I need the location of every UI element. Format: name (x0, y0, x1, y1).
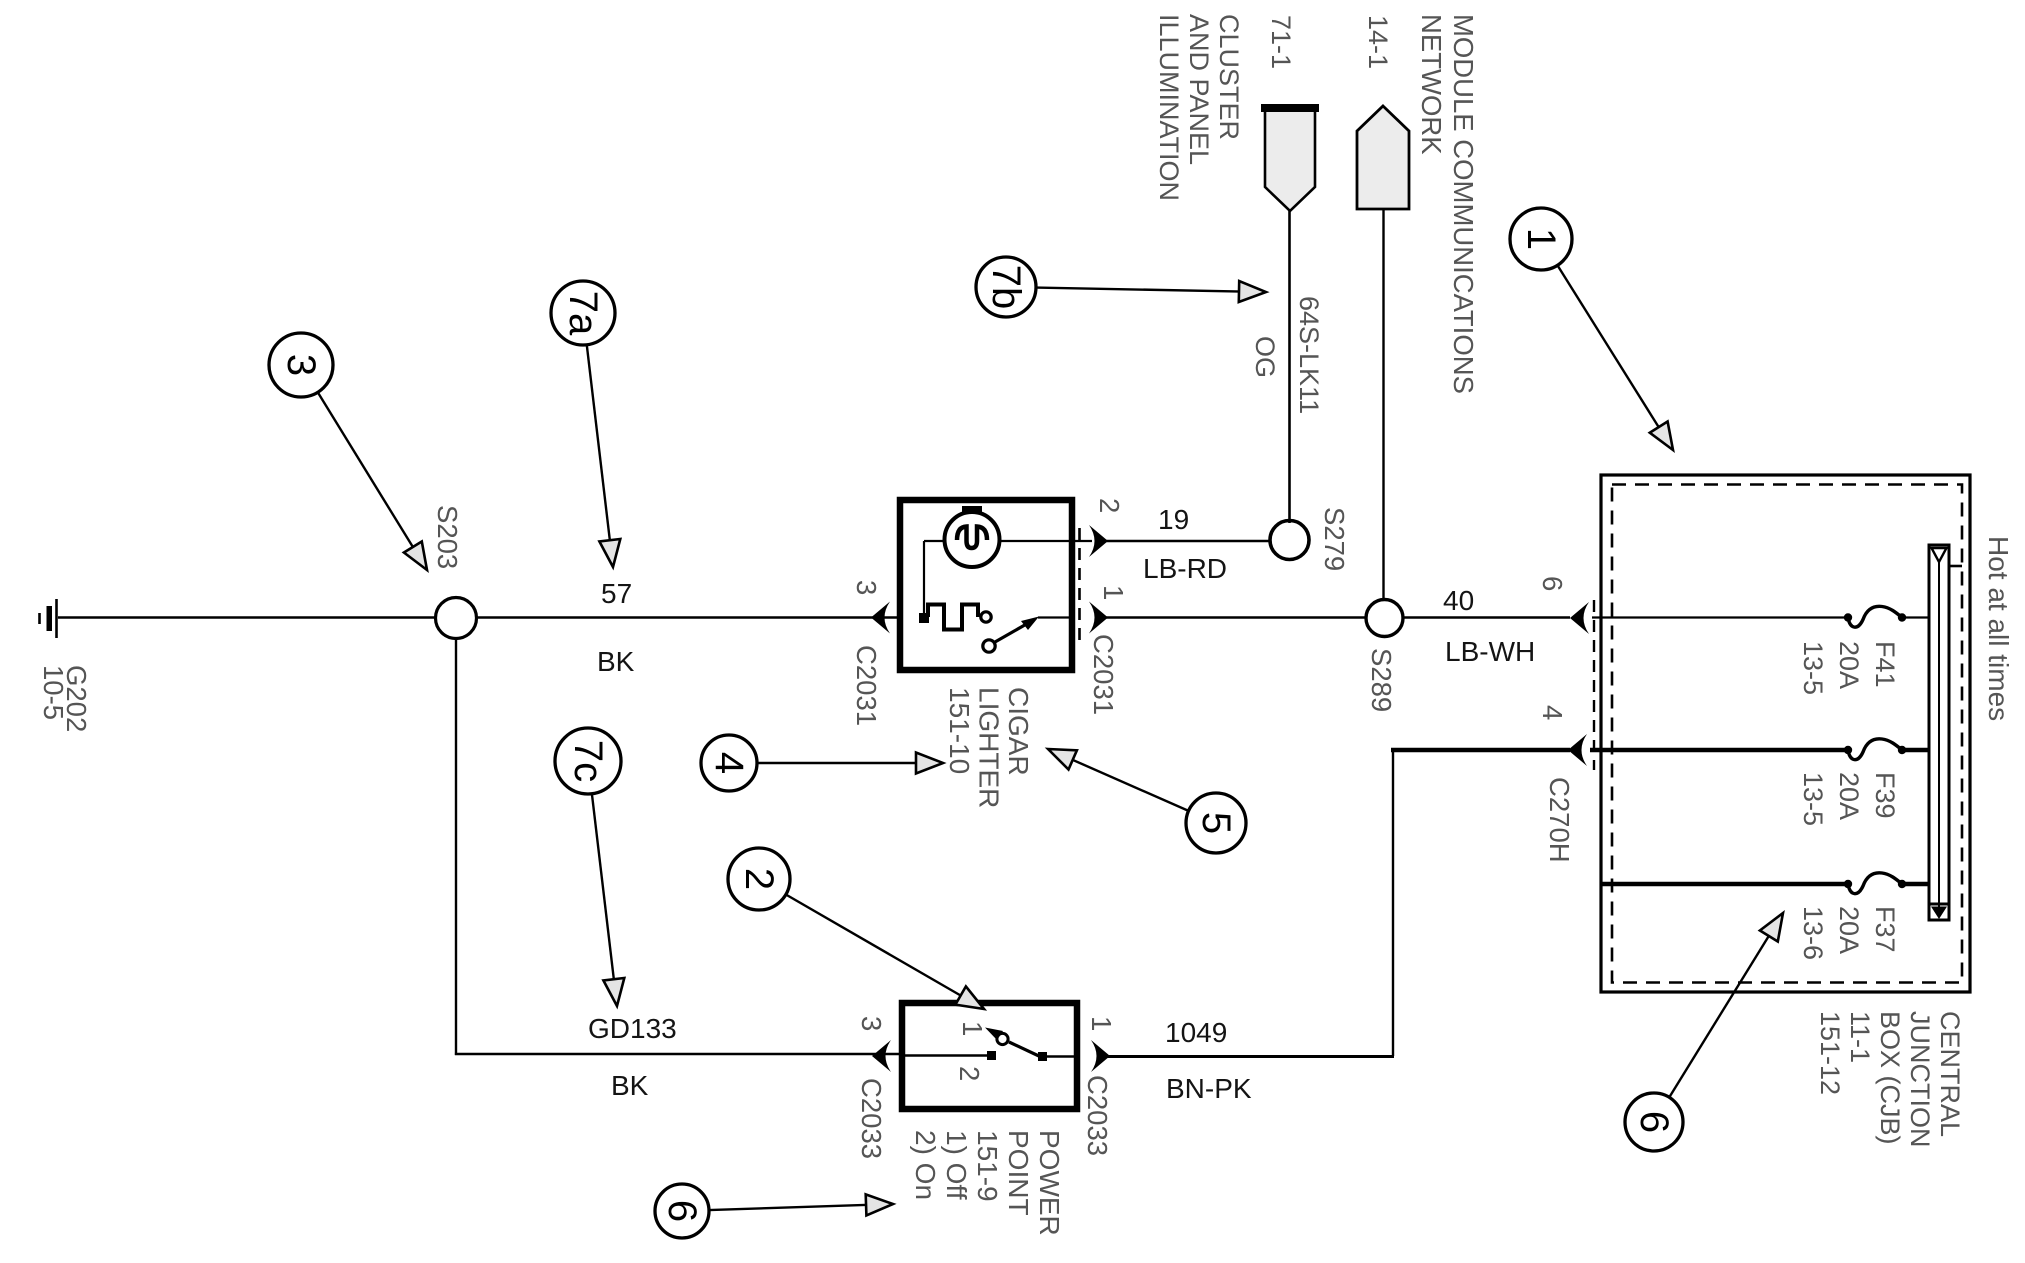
power point box (902, 1003, 1077, 1109)
connector C2033 pin 3 (left) (872, 1040, 891, 1072)
callout 5 (1070, 759, 1189, 811)
wire S289 to cigar pin 1 (1106, 616, 1366, 618)
wire CJB pin 4 to 1049 riser (1391, 748, 1570, 753)
wire GD133 BK : S203 branch to power point pin 3 (455, 1053, 902, 1055)
svg-text:3: 3 (279, 354, 323, 376)
svg-text:OG: OG (1250, 336, 1280, 378)
svg-text:F3720A13-6: F3720A13-6 (1798, 906, 1900, 960)
connector C2031 pin 3 (871, 602, 890, 634)
central junction box (CJB) outline (1601, 475, 1970, 992)
svg-text:GD133: GD133 (588, 1013, 677, 1044)
svg-text:57: 57 (601, 578, 632, 609)
svg-text:4: 4 (1537, 705, 1568, 720)
fuse F37 20A 13-6 (1602, 882, 1848, 887)
ground G202 (55, 599, 58, 638)
fuse F39 20A 13-5 (1590, 748, 1848, 753)
svg-text:Hot at all times: Hot at all times (1983, 536, 2014, 721)
svg-text:40: 40 (1443, 585, 1474, 616)
svg-text:7a: 7a (561, 291, 605, 336)
svg-text:1: 1 (957, 1021, 988, 1036)
svg-text:C2033: C2033 (856, 1078, 887, 1159)
svg-text:14-1: 14-1 (1363, 15, 1393, 69)
svg-text:4: 4 (707, 752, 751, 774)
splice S203 (436, 598, 477, 639)
callout 7b (1036, 288, 1242, 292)
svg-text:F3920A13-5: F3920A13-5 (1798, 772, 1900, 826)
callout 2 (786, 895, 963, 997)
svg-text:6: 6 (660, 1200, 704, 1222)
svg-text:BK: BK (611, 1070, 649, 1101)
svg-text:S203: S203 (432, 505, 463, 569)
wire S203 branch down (455, 638, 457, 1055)
svg-text:C2033: C2033 (1082, 1075, 1113, 1156)
splice S289 (1366, 600, 1403, 637)
lamp branch wire + junction (923, 541, 925, 618)
bus bar (hot at all times) (1929, 545, 1949, 920)
svg-text:3: 3 (851, 580, 882, 595)
switch (power point) (905, 1054, 990, 1056)
callout 7c (592, 794, 614, 982)
svg-text:2: 2 (954, 1066, 985, 1081)
svg-text:F4120A13-5: F4120A13-5 (1798, 641, 1900, 695)
svg-text:6: 6 (1632, 1111, 1676, 1133)
wire 14-1 to S289 (1382, 209, 1384, 601)
callout 6 (power point) (709, 1205, 869, 1210)
wire 64S-LK11 OG (1288, 211, 1291, 523)
svg-text:19: 19 (1158, 504, 1189, 535)
svg-text:71-1: 71-1 (1266, 15, 1296, 69)
svg-text:3: 3 (856, 1016, 887, 1031)
wire 1049 BN-PK (1104, 1055, 1394, 1058)
svg-text:1: 1 (1086, 1016, 1117, 1031)
svg-text:5: 5 (1194, 812, 1238, 834)
svg-text:7c: 7c (566, 740, 610, 782)
svg-text:C2031: C2031 (1088, 634, 1119, 715)
svg-text:1: 1 (1519, 228, 1563, 250)
svg-text:2: 2 (737, 868, 781, 890)
resistor (heating coil) (928, 605, 978, 630)
svg-text:7b: 7b (984, 265, 1028, 310)
svg-text:6: 6 (1537, 576, 1568, 591)
svg-text:BK: BK (597, 646, 635, 677)
svg-text:S289: S289 (1366, 648, 1397, 712)
wire 40 LB-WH (1403, 616, 1570, 618)
svg-text:S279: S279 (1319, 507, 1350, 571)
wire 57 BK : S203 to cigar lighter pin 3 (477, 616, 899, 618)
connector C2031 pins 2 and 1 (right) (1078, 528, 1081, 640)
svg-text:64S-LK11: 64S-LK11 (1294, 296, 1324, 414)
connector C270H pin 4 (1568, 734, 1587, 766)
svg-text:C2031: C2031 (851, 645, 882, 726)
splice S279 (1270, 521, 1309, 560)
callout 6 (CJB) (1669, 933, 1770, 1097)
wire ground to splice S203 (58, 616, 436, 618)
svg-text:C270H: C270H (1544, 777, 1575, 863)
wire 19 LB-RD (1106, 540, 1272, 542)
svg-text:LB-RD: LB-RD (1143, 553, 1227, 584)
callout 7a (587, 345, 610, 543)
svg-text:BN-PK: BN-PK (1166, 1073, 1252, 1104)
switch (cigar lighter) (981, 612, 991, 622)
off-page connector 71-1 (cluster and panel illumination) (1265, 109, 1315, 211)
connector C270H pin 6 (1593, 600, 1595, 770)
svg-text:1049: 1049 (1165, 1017, 1227, 1048)
lamp / heating element circle (924, 540, 1092, 542)
svg-text:LB-WH: LB-WH (1445, 636, 1535, 667)
fuse F41 20A 13-5 (1592, 616, 1848, 618)
off-page connector 14-1 (module communications network) (1357, 106, 1409, 209)
connector C2033 pin 1 (right) (1091, 1040, 1110, 1072)
callout 1 (1557, 265, 1660, 429)
callout 3 (318, 392, 415, 549)
svg-text:2: 2 (1094, 498, 1125, 513)
svg-text:1: 1 (1098, 585, 1129, 600)
callout 4 (757, 762, 919, 764)
cigar lighter box (900, 500, 1072, 670)
